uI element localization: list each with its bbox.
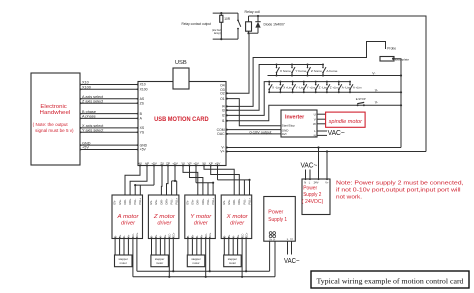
- svg-text:DIR-: DIR-: [196, 199, 200, 204]
- node card bottom pin YP: [189, 165, 191, 167]
- wire handwheel +5V: [80, 146, 139, 151]
- title box: [311, 271, 469, 288]
- node DC- bus junction Z: [168, 276, 170, 278]
- svg-text:DC+: DC+: [208, 232, 212, 238]
- switch A -Lim: [338, 81, 351, 94]
- svg-text:A-: A-: [159, 235, 163, 238]
- svg-text:V-: V-: [375, 88, 378, 92]
- svg-text:EN+: EN+: [227, 199, 231, 205]
- svg-text:lamp): lamp): [214, 31, 221, 35]
- wire +5V to A driver PUL- PUL+: [153, 166, 155, 186]
- Y motor driver box: [185, 195, 216, 239]
- svg-text:VAC~: VAC~: [284, 258, 300, 265]
- svg-text:EN+: EN+: [118, 199, 122, 205]
- switch A +Lim: [349, 81, 362, 94]
- wire A driver DC+ to bus: [136, 239, 138, 272]
- svg-text:N: N: [291, 237, 293, 241]
- svg-text:V+: V+: [325, 180, 329, 184]
- wires A driver to stepper motor: [114, 237, 137, 255]
- wire PS2 N to VAC: [305, 170, 307, 180]
- node DC+ bus junction X: [245, 270, 247, 272]
- svg-text:DIR-: DIR-: [232, 199, 236, 204]
- svg-text:X10: X10: [82, 81, 89, 85]
- svg-text:W: W: [313, 122, 316, 126]
- svg-text:VAC~: VAC~: [328, 128, 345, 137]
- svg-text:YS: YS: [140, 131, 145, 135]
- node PS2 V- tap: [317, 146, 319, 148]
- svg-text:DIR+: DIR+: [237, 198, 241, 204]
- pin labels Y driver top: [186, 197, 216, 204]
- svg-text:24V-: 24V-: [314, 180, 319, 184]
- node card bottom pin +5V: [217, 165, 219, 167]
- node +5V branch Z driver: [174, 180, 176, 182]
- X motor driver title: [226, 214, 249, 227]
- wire inverter V to spindle: [317, 118, 326, 120]
- svg-text:ZS: ZS: [140, 101, 145, 105]
- switch X home: [276, 64, 292, 77]
- touch plate: [380, 57, 394, 62]
- wires Y driver to stepper motor: [187, 237, 210, 255]
- wire inverter W to spindle: [317, 123, 326, 125]
- svg-text:Relay coil: Relay coil: [245, 10, 261, 14]
- power supply 2 title: [302, 185, 324, 205]
- pin labels Z driver bottom: [150, 232, 176, 238]
- svg-text:0-10V output: 0-10V output: [250, 131, 272, 135]
- svg-text:DIR-: DIR-: [159, 199, 163, 204]
- power supply 1 title: [268, 209, 287, 223]
- svg-text:GND: GND: [140, 143, 148, 147]
- node +5V branch A driver: [134, 184, 136, 186]
- svg-text:X100: X100: [82, 86, 91, 90]
- svg-text:DC-: DC-: [131, 233, 135, 238]
- node V- rail junction limit: [400, 91, 402, 93]
- wire inverter N: [317, 134, 327, 136]
- node card bottom pin XP: [210, 165, 212, 167]
- svg-text:Start/Stop: Start/Stop: [282, 124, 295, 128]
- switch Y +Lim: [303, 81, 316, 94]
- node X driver top pin dots: [233, 195, 250, 197]
- svg-text:DIR-: DIR-: [123, 199, 127, 204]
- svg-text:N: N: [314, 134, 316, 138]
- svg-text:PUL+: PUL+: [175, 197, 179, 204]
- svg-text:PUL-: PUL-: [170, 198, 174, 204]
- wire handwheel A axis select: [80, 95, 139, 100]
- svg-text:A-: A-: [122, 235, 126, 238]
- resistor 10R: [220, 13, 231, 26]
- svg-text:( 24VDC): ( 24VDC): [302, 199, 324, 205]
- wire V+ top rail to relay coil: [249, 16, 427, 152]
- stepper motor Z: [151, 255, 169, 267]
- pin labels Y driver bottom: [186, 232, 212, 238]
- switch Y home: [291, 64, 307, 77]
- svg-text:motor: motor: [156, 261, 163, 265]
- pin labels X driver bottom: [223, 232, 249, 238]
- wire X driver DC- to bus: [241, 239, 243, 277]
- wire O2 to relay coil: [226, 33, 249, 93]
- svg-text:EN+: EN+: [154, 199, 158, 205]
- node DC- bus junction Y: [205, 276, 207, 278]
- node card bottom pin A0: [139, 165, 141, 167]
- spindle motor box: [326, 112, 366, 127]
- wire Z driver DC- to bus: [168, 239, 170, 277]
- wire V+ line: [226, 151, 426, 153]
- svg-text:Supply 2: Supply 2: [303, 192, 321, 198]
- svg-text:DC-: DC-: [168, 233, 172, 238]
- svg-text:E-STOP: E-STOP: [356, 97, 366, 101]
- node card right pin dots: [226, 92, 228, 152]
- pin labels Z driver top: [149, 197, 179, 204]
- wire DC+ bus: [137, 270, 270, 272]
- node DC+ bus junction Z: [172, 270, 174, 272]
- svg-text:GND: GND: [82, 141, 91, 145]
- svg-text:AS: AS: [140, 97, 145, 101]
- handwheel note text: [33, 122, 74, 133]
- wire Z driver DC+ to bus: [172, 239, 174, 272]
- svg-text:V-: V-: [375, 101, 378, 105]
- wire DC+ bus to PS1 V+: [269, 241, 271, 271]
- svg-text:B+: B+: [154, 234, 158, 238]
- wire handwheel B phase: [80, 110, 139, 115]
- svg-text:PUL-: PUL-: [242, 198, 246, 204]
- stepper motor X: [224, 255, 242, 267]
- svg-text:X10: X10: [140, 83, 146, 87]
- svg-text:motor: motor: [192, 261, 199, 265]
- svg-text:Note: Power supply 2 must be c: Note: Power supply 2 must be connected,: [336, 181, 464, 187]
- wire relay-contact bottom rail: [213, 38, 238, 40]
- wire handwheel A phase: [80, 115, 139, 120]
- wire Z0 step to Z driver DIR-: [160, 166, 163, 196]
- wire +5V to Y driver PUL- PUL+: [195, 166, 197, 183]
- svg-text:+5V: +5V: [82, 146, 89, 150]
- wire DC- bus to PS1 V-: [274, 241, 276, 277]
- pin labels L N PS1: [287, 237, 293, 241]
- svg-text:A+: A+: [163, 234, 167, 238]
- inverter box: [281, 110, 317, 137]
- power supply 2 box: [302, 179, 330, 215]
- svg-text:PUL-: PUL-: [206, 198, 210, 204]
- terminal V+ PS1: [269, 232, 273, 242]
- svg-text:PUL-: PUL-: [133, 198, 137, 204]
- svg-text:A phase: A phase: [82, 115, 96, 119]
- svg-text:Z axis select: Z axis select: [82, 99, 104, 103]
- USB motion card box U1: [138, 82, 226, 166]
- svg-text:B-: B-: [186, 235, 190, 238]
- svg-text:B phase: B phase: [82, 110, 96, 114]
- wire XP pulse to X driver DIR+: [211, 166, 240, 196]
- svg-text:driver: driver: [230, 221, 244, 227]
- svg-text:Z home: Z home: [311, 69, 322, 73]
- switch Z +Lim: [326, 81, 339, 94]
- svg-text:X axis select: X axis select: [82, 124, 104, 128]
- svg-text:O2: O2: [220, 91, 225, 95]
- svg-text:+5V: +5V: [140, 148, 147, 152]
- wire ZP pulse to Z driver DIR+: [167, 166, 169, 196]
- switch X +Lim: [279, 81, 292, 94]
- svg-text:Y axis select: Y axis select: [82, 129, 104, 133]
- wire handwheel X10: [80, 81, 139, 86]
- node card bottom pin ZP: [167, 165, 169, 167]
- svg-text:PUL+: PUL+: [138, 197, 142, 204]
- wire V- line: [226, 147, 401, 149]
- node Z driver top pin dots: [161, 195, 178, 197]
- wire I1 to e-stop: [226, 105, 401, 121]
- node card bottom pin +5V: [174, 165, 176, 167]
- wire X0 step to X driver DIR-: [204, 166, 234, 196]
- svg-text:X +Lim: X +Lim: [283, 86, 292, 90]
- svg-text:Relay contact output: Relay contact output: [182, 22, 212, 26]
- wire Y driver DC+ to bus: [209, 239, 211, 272]
- node +5V branch X driver: [248, 179, 250, 181]
- svg-text:A axis select: A axis select: [82, 95, 104, 99]
- svg-text:spindle motor: spindle motor: [329, 119, 364, 125]
- svg-text:DC-: DC-: [204, 233, 208, 238]
- wire PS2 24V- to V- line: [318, 148, 320, 180]
- svg-text:USB MOTION CARD: USB MOTION CARD: [154, 117, 209, 123]
- svg-text:driver: driver: [157, 221, 171, 227]
- wire PS1 L to VAC: [287, 241, 289, 254]
- node DC+ bus junction Y: [209, 270, 211, 272]
- svg-text:PUL+: PUL+: [247, 197, 251, 204]
- node card bottom pin X0: [203, 165, 205, 167]
- USB connector box: [173, 68, 189, 89]
- svg-text:XS: XS: [140, 126, 145, 130]
- pin labels X driver top: [222, 197, 252, 204]
- node Y driver top pin dots: [197, 195, 214, 197]
- svg-text:B+: B+: [191, 234, 195, 238]
- switch Y -Lim: [292, 81, 305, 94]
- svg-text:signal must be 5 v): signal must be 5 v): [35, 128, 74, 133]
- svg-text:DIR+: DIR+: [128, 198, 132, 204]
- wire Y driver DC- to bus: [205, 239, 207, 277]
- node PS2 top pin dots: [305, 178, 328, 180]
- svg-text:Y +Lim: Y +Lim: [307, 86, 316, 90]
- svg-text:A+: A+: [236, 234, 240, 238]
- wire handwheel Y axis select: [80, 129, 139, 134]
- svg-text:B+: B+: [227, 234, 231, 238]
- svg-text:EN+: EN+: [191, 199, 195, 205]
- svg-text:( Note: the output: ( Note: the output: [33, 122, 69, 127]
- svg-text:Z +Lim: Z +Lim: [330, 86, 339, 90]
- svg-text:V-: V-: [372, 72, 375, 76]
- node DC- bus junction X: [241, 276, 243, 278]
- node card bottom pin Z0: [161, 165, 163, 167]
- svg-text:O1: O1: [220, 97, 225, 101]
- svg-text:DAC: DAC: [217, 132, 225, 136]
- svg-text:X motor: X motor: [226, 214, 249, 220]
- wire relay-contact top rail: [213, 12, 238, 14]
- svg-text:Diode 1N4007: Diode 1N4007: [264, 23, 285, 27]
- svg-text:DC+: DC+: [135, 232, 139, 238]
- svg-text:EN-: EN-: [113, 200, 117, 205]
- wire I2 to limit switch rail: [226, 82, 350, 116]
- svg-text:DIR+: DIR+: [201, 198, 205, 204]
- wire +5V to X driver PUL- PUL+: [217, 166, 219, 180]
- node card bottom pin +5V: [195, 165, 197, 167]
- wire O1 to inverter Start/Stop: [226, 99, 281, 126]
- svg-text:DC+: DC+: [172, 232, 176, 238]
- pin labels A driver bottom: [113, 232, 139, 238]
- A motor driver title: [116, 214, 139, 227]
- svg-text:Inverter: Inverter: [285, 114, 304, 120]
- svg-text:B-: B-: [150, 235, 154, 238]
- note text power supply 2: [336, 181, 464, 201]
- wire touchplate to V- rail: [393, 59, 401, 76]
- X motor driver box: [221, 195, 252, 239]
- node diode cathode junction: [257, 15, 259, 17]
- svg-text:Y motor: Y motor: [190, 214, 211, 220]
- wire handwheel X axis select: [80, 124, 139, 129]
- wire PS1 N to VAC: [291, 241, 293, 254]
- wire AP pulse to A driver DIR+: [130, 166, 147, 196]
- wire COM to inverter GND: [226, 129, 281, 131]
- switch Z -Lim: [315, 81, 328, 94]
- wire PS2 V+ to V+ line: [326, 152, 328, 180]
- svg-text:motor: motor: [229, 261, 236, 265]
- svg-text:Y home: Y home: [295, 69, 306, 73]
- svg-text:A motor: A motor: [116, 214, 139, 220]
- svg-text:V-: V-: [273, 238, 275, 241]
- relay coil K1: [246, 16, 252, 33]
- svg-text:EN-: EN-: [186, 200, 190, 205]
- svg-text:10R: 10R: [224, 17, 231, 21]
- stepper motor Y: [187, 255, 205, 267]
- node card bottom pin AP: [146, 165, 148, 167]
- svg-text:I3: I3: [222, 108, 225, 112]
- svg-text:EN-: EN-: [149, 200, 153, 205]
- svg-text:B-: B-: [223, 235, 227, 238]
- svg-text:A +Lim: A +Lim: [353, 86, 362, 90]
- wire handwheel X100: [80, 86, 139, 91]
- svg-text:driver: driver: [194, 221, 208, 227]
- svg-text:VAC~: VAC~: [301, 163, 318, 170]
- wire limit common rail: [269, 91, 401, 93]
- svg-text:if not 0-10v port,output port,: if not 0-10v port,output port,input port…: [336, 188, 461, 194]
- switch Z home: [307, 64, 323, 77]
- diode D1 1N4007: [255, 16, 260, 33]
- svg-text:Handwheel: Handwheel: [40, 110, 71, 116]
- svg-text:motor: motor: [120, 261, 127, 265]
- wire handwheel GND: [80, 141, 139, 146]
- svg-text:N: N: [304, 180, 306, 184]
- svg-text:Power: Power: [268, 209, 283, 215]
- wire inverter L: [317, 130, 327, 132]
- wire home common rail: [268, 75, 402, 77]
- wire DC- bus: [133, 276, 275, 278]
- node card bottom pin Y0: [182, 165, 184, 167]
- svg-text:A-: A-: [231, 235, 235, 238]
- electronic handwheel title: [40, 104, 71, 116]
- switch relay contact: [237, 13, 241, 39]
- svg-text:Supply 1: Supply 1: [268, 217, 287, 223]
- svg-text:I2: I2: [222, 114, 225, 118]
- svg-text:DC-: DC-: [240, 233, 244, 238]
- node diode anode junction: [247, 32, 249, 34]
- svg-text:I1: I1: [222, 119, 225, 123]
- Y motor driver title: [190, 214, 211, 227]
- wire inverter U to spindle: [317, 113, 326, 115]
- svg-text:AVI: AVI: [282, 132, 287, 136]
- node V- rail junction estop: [400, 104, 402, 106]
- power supply 1 box: [264, 197, 296, 242]
- svg-text:Probe: Probe: [387, 47, 396, 51]
- svg-text:X100: X100: [140, 88, 148, 92]
- switch A home: [322, 64, 338, 77]
- wire PS2 L to VAC: [309, 170, 311, 180]
- wires X driver to stepper motor: [224, 237, 247, 255]
- Z motor driver title: [153, 214, 176, 227]
- wire coil-diode bottom link: [249, 32, 259, 34]
- svg-text:USB: USB: [175, 60, 187, 66]
- svg-text:U: U: [314, 112, 316, 116]
- stepper motor A: [115, 255, 133, 267]
- svg-text:V: V: [314, 117, 316, 121]
- svg-text:driver: driver: [121, 221, 135, 227]
- wire YP pulse to Y driver DIR+: [190, 166, 203, 196]
- svg-text:X home: X home: [280, 69, 291, 73]
- wire X driver DC+ to bus: [245, 239, 247, 272]
- A motor driver box: [112, 195, 143, 239]
- svg-text:V+: V+: [220, 150, 224, 154]
- svg-text:Power: Power: [303, 185, 317, 191]
- node A driver top pin dots: [124, 195, 141, 197]
- svg-text:PUL+: PUL+: [211, 197, 215, 204]
- node touchplate terminal: [392, 58, 394, 60]
- svg-text:A home: A home: [326, 69, 337, 73]
- wire switch common drop to V-: [400, 59, 402, 148]
- node PS2 V+ tap: [326, 150, 328, 152]
- node card bottom pin +5V: [153, 165, 155, 167]
- svg-text:DC+: DC+: [244, 232, 248, 238]
- wires Z driver to stepper motor: [151, 237, 174, 255]
- wire I4 to probe line: [226, 42, 386, 107]
- Z motor driver box: [148, 195, 179, 239]
- svg-text:A+: A+: [127, 234, 131, 238]
- lamp (2w bulb lamp) branch: [212, 26, 221, 39]
- svg-text:Z motor: Z motor: [153, 214, 176, 220]
- svg-text:DIR+: DIR+: [164, 198, 168, 204]
- terminal V- PS1: [273, 232, 276, 242]
- node relay-contact top junction: [220, 12, 222, 14]
- switch E-STOP: [356, 97, 366, 106]
- wire A0 step to A driver DIR-: [125, 166, 140, 196]
- wire Y0 step to Y driver DIR-: [183, 166, 198, 196]
- node V- rail junction home: [400, 74, 402, 76]
- node +5V branch Y driver: [212, 182, 214, 184]
- svg-text:B-: B-: [113, 235, 117, 238]
- svg-text:A-: A-: [195, 235, 199, 238]
- pin labels N L 24V- V+ (PS2 top): [304, 180, 329, 184]
- electronic handwheel box: [31, 73, 80, 165]
- wire handwheel Z axis select: [80, 99, 139, 104]
- wire A driver DC- to bus: [132, 239, 134, 277]
- node relay-contact bottom junction: [220, 38, 222, 40]
- svg-text:A+: A+: [199, 234, 203, 238]
- switch X -Lim: [268, 81, 281, 94]
- svg-text:not work.: not work.: [336, 195, 362, 201]
- svg-text:EN-: EN-: [222, 200, 226, 205]
- wire I3 to home switch rail: [226, 65, 323, 111]
- wire DAC 0-10V output to inverter AVI: [226, 133, 281, 135]
- svg-text:Typical wiring example of moti: Typical wiring example of motion control…: [317, 276, 464, 285]
- svg-text:B+: B+: [118, 234, 122, 238]
- pin labels A driver top: [113, 197, 143, 204]
- wire +5V to Z driver PUL- PUL+: [174, 166, 176, 181]
